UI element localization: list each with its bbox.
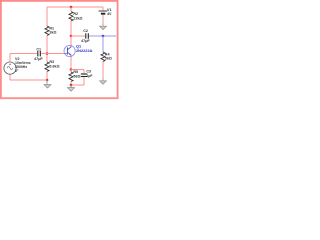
- svg-text:5.6kΩ: 5.6kΩ: [49, 65, 59, 69]
- wire R2 top: [70, 7, 72, 11]
- ground arrow output: [100, 81, 107, 84]
- node ground junction: [46, 79, 49, 82]
- svg-text:C2: C2: [83, 29, 88, 33]
- resistor R3: [45, 60, 60, 71]
- border frame: [1, 1, 118, 98]
- transistor Q1: [64, 43, 93, 56]
- node output junction (blue): [102, 35, 105, 38]
- wire R4 bottom: [102, 62, 104, 78]
- svg-text:56Ω: 56Ω: [105, 57, 112, 61]
- ground arrow emitter: [68, 85, 75, 91]
- svg-text:3kΩ: 3kΩ: [49, 31, 56, 35]
- wire emitter ground bus: [71, 84, 84, 86]
- node base junction: [46, 52, 49, 55]
- wire bias lower: [46, 72, 48, 81]
- wire collector node to C2: [71, 35, 85, 37]
- node emitter ground junction: [70, 84, 73, 87]
- svg-text:1µF: 1µF: [86, 74, 93, 78]
- svg-text:R3: R3: [49, 60, 54, 64]
- wire left bias string upper: [46, 7, 48, 26]
- capacitor C3: [81, 70, 94, 78]
- resistor R2: [69, 12, 83, 22]
- wire bias mid: [46, 36, 48, 63]
- capacitor C2: [81, 29, 90, 43]
- wire V2 to C1: [10, 53, 37, 55]
- svg-text:22kΩ: 22kΩ: [73, 16, 82, 20]
- node collector junction: [70, 35, 73, 38]
- wire collector: [70, 36, 72, 45]
- svg-text:2N2222A: 2N2222A: [76, 48, 93, 53]
- wire V2 top: [9, 54, 11, 62]
- wire C3 top: [83, 70, 85, 74]
- wire emitter to R5: [70, 70, 72, 73]
- wire emitter to C3: [71, 69, 84, 71]
- AC source V2: [4, 57, 31, 74]
- ground arrow V1: [100, 26, 107, 29]
- svg-text:C1: C1: [36, 48, 41, 52]
- wire C3 bottom: [83, 77, 85, 85]
- wire R2 bottom to collector: [70, 21, 72, 36]
- svg-text:4V: 4V: [107, 12, 112, 16]
- node VCC-R2 junction: [70, 6, 73, 9]
- ground arrow bias: [44, 80, 51, 88]
- battery V1: [99, 8, 112, 16]
- resistor R5: [69, 70, 81, 81]
- wire V1 bottom: [102, 15, 104, 23]
- svg-text:0°: 0°: [15, 69, 19, 73]
- node emitter junction: [70, 68, 73, 71]
- wire V2 bottom to junction: [10, 79, 47, 81]
- wire VCC top rail: [47, 6, 103, 8]
- svg-text:47µF: 47µF: [81, 39, 90, 43]
- wire V1 top: [102, 7, 104, 11]
- wire R5 bottom: [70, 82, 72, 86]
- svg-text:47µF: 47µF: [34, 57, 43, 61]
- capacitor C1: [34, 48, 43, 61]
- resistor R4: [101, 52, 112, 62]
- wire output down (blue): [102, 36, 104, 52]
- wire C1 to base node: [41, 53, 47, 55]
- resistor R1: [45, 26, 57, 36]
- svg-text:56Ω: 56Ω: [73, 74, 80, 78]
- wire V2 bottom: [9, 74, 11, 80]
- wire emitter: [70, 57, 72, 70]
- wire base: [47, 53, 64, 55]
- wire C2 output (blue): [89, 35, 116, 37]
